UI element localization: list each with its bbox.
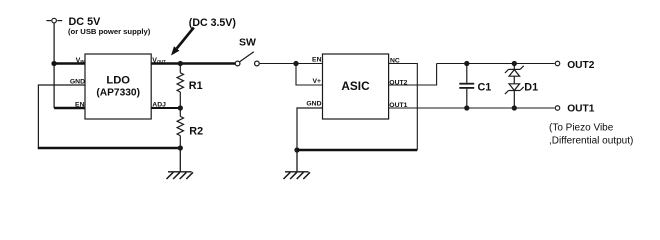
terminal OUT2 — [555, 61, 560, 66]
wire VOUT — [151, 62, 235, 64]
IC U1 LDO AP7330 — [85, 54, 151, 119]
node EN junction — [293, 61, 298, 66]
wire supply vertical — [53, 23, 55, 108]
ground 1 — [167, 148, 194, 179]
svg-text:(To Piezo Vibe: (To Piezo Vibe — [549, 123, 614, 134]
svg-text:(AP7330): (AP7330) — [96, 88, 140, 99]
wire NC to ground rail — [389, 64, 418, 151]
switch SW — [235, 52, 259, 66]
node C1 top — [464, 61, 469, 66]
wire OUT2 row — [437, 63, 555, 65]
svg-text:SW: SW — [239, 37, 256, 49]
terminal OUT1 — [555, 106, 560, 111]
svg-text:LDO: LDO — [106, 75, 130, 87]
svg-text:GND: GND — [306, 101, 321, 108]
wire LDO EN — [54, 107, 85, 109]
svg-text:,Differential output): ,Differential output) — [549, 136, 633, 147]
svg-text:OUT1: OUT1 — [567, 104, 595, 115]
capacitor C1 — [459, 64, 491, 109]
node D1 bottom — [512, 105, 517, 110]
svg-text:R2: R2 — [189, 126, 203, 138]
svg-text:V+: V+ — [312, 78, 321, 85]
wire ADJ — [151, 107, 180, 109]
svg-text:GND: GND — [70, 78, 85, 85]
wire LDO GND — [38, 85, 85, 149]
svg-text:ASIC: ASIC — [341, 79, 370, 93]
node VIN junction — [51, 61, 56, 66]
wire SW to ASIC EN — [260, 63, 323, 65]
node R2 ground junction — [178, 145, 183, 150]
wire EN to V+ — [296, 64, 323, 86]
terminal DC5V — [46, 18, 62, 23]
svg-text:D1: D1 — [524, 81, 538, 93]
wire VIN — [52, 62, 86, 64]
node ADJ junction — [178, 105, 183, 110]
svg-text:C1: C1 — [478, 81, 492, 93]
wire ASIC GND — [297, 108, 323, 150]
svg-text:(DC 3.5V): (DC 3.5V) — [189, 17, 236, 29]
IC U2 ASIC — [323, 54, 389, 119]
svg-text:EN: EN — [75, 101, 85, 108]
wire ground rail right — [297, 149, 417, 151]
node D1 top — [512, 61, 517, 66]
wire OUT2 pin jog — [389, 64, 437, 86]
arrow to VOUT — [171, 28, 194, 56]
svg-text:(or USB power supply): (or USB power supply) — [68, 27, 151, 36]
resistor R1 — [177, 64, 203, 109]
wire OUT1 row — [389, 107, 555, 109]
resistor R2 — [177, 108, 203, 148]
svg-text:EN: EN — [312, 56, 322, 63]
node VOUT R1 junction — [178, 61, 183, 66]
svg-text:R1: R1 — [189, 80, 203, 92]
ground 2 — [284, 150, 311, 179]
wire ground rail left — [38, 147, 181, 149]
svg-text:VIN: VIN — [76, 57, 85, 64]
diode D1 dual zener — [505, 64, 538, 109]
svg-text:OUT2: OUT2 — [567, 60, 595, 71]
node ASIC GND rail junction — [294, 147, 299, 152]
node C1 bottom — [464, 105, 469, 110]
